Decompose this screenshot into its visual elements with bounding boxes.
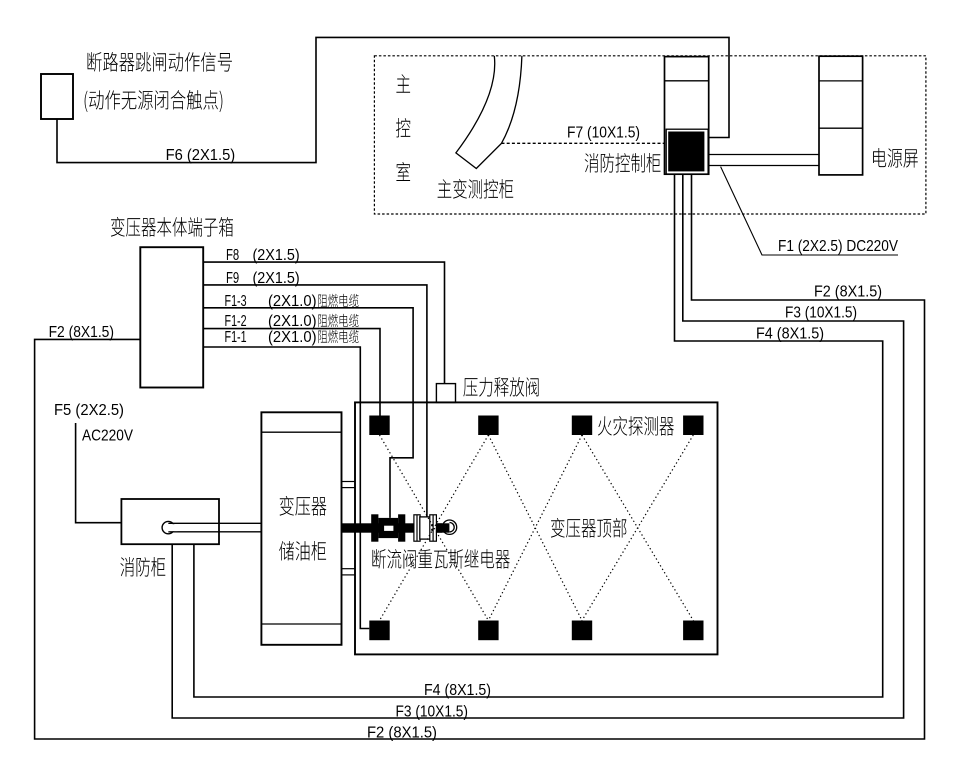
wire F1-2 to detector T1 xyxy=(203,329,380,416)
signal source box (breaker trip contact) xyxy=(41,74,73,119)
svg-text:AC220V: AC220V xyxy=(82,428,133,445)
svg-text:F4 (8X1.5): F4 (8X1.5) xyxy=(424,682,491,699)
fire control cabinet xyxy=(665,57,709,175)
svg-text:F8: F8 xyxy=(226,247,239,264)
label: breaker trip signal text xyxy=(88,52,232,72)
wire F9 to gas relay xyxy=(203,285,427,517)
label: main transformer control panel xyxy=(438,179,514,199)
label: transformer top xyxy=(551,518,627,538)
conservator side tab lower xyxy=(342,568,356,570)
svg-text:(2X1.0): (2X1.0) xyxy=(268,293,317,310)
label: main control room (vertical) xyxy=(396,74,410,93)
svg-text:F1-1: F1-1 xyxy=(225,329,247,346)
label: fire detector xyxy=(598,416,674,436)
svg-text:F2 (8X1.5): F2 (8X1.5) xyxy=(814,284,882,301)
wire F3 (cabinet to fire cabinet) xyxy=(172,174,903,718)
wire F8 to pressure relief valve xyxy=(203,262,444,384)
wire F4 (cabinet to fire cabinet) xyxy=(194,174,883,697)
label: transformer terminal box xyxy=(111,217,233,237)
fire detectors top row xyxy=(369,416,389,436)
pressure relief valve box xyxy=(436,384,455,403)
flow cutoff valve xyxy=(371,514,378,541)
transformer oil conservator xyxy=(261,412,341,645)
wire F1-3 to flow valve xyxy=(203,308,413,518)
svg-text:F1-2: F1-2 xyxy=(225,313,247,330)
svg-text:F9: F9 xyxy=(226,270,239,287)
svg-text:(2X1.0): (2X1.0) xyxy=(268,329,317,346)
svg-text:F2 (8X1.5): F2 (8X1.5) xyxy=(49,324,114,341)
nozzle end circle xyxy=(442,520,456,534)
wire F1-1 to detector B1 xyxy=(203,347,369,629)
svg-text:F2 (8X1.5): F2 (8X1.5) xyxy=(367,725,437,742)
label: fire control cabinet xyxy=(585,153,661,173)
label: transformer oil conservator xyxy=(280,496,327,516)
svg-text:F6 (2X1.5): F6 (2X1.5) xyxy=(166,147,236,164)
fire control cabinet black panel xyxy=(666,129,708,174)
main control room dashed box xyxy=(374,56,926,214)
svg-text:F3 (10X1.5): F3 (10X1.5) xyxy=(396,704,469,721)
transformer top box xyxy=(355,402,718,654)
main transformer control panel arc symbol xyxy=(456,56,522,169)
svg-text:F1 (2X2.5) DC220V: F1 (2X2.5) DC220V xyxy=(778,238,898,255)
svg-text:F7 (10X1.5): F7 (10X1.5) xyxy=(567,125,640,142)
label: flow valve and gas relay xyxy=(372,549,509,569)
power supply panel xyxy=(819,56,863,175)
svg-text:F4 (8X1.5): F4 (8X1.5) xyxy=(756,326,824,343)
label: fire cabinet xyxy=(120,557,165,577)
wire F2 (cabinet to terminal box, long loop) xyxy=(35,174,925,739)
wire F7 dashed xyxy=(502,142,665,144)
fire cabinet xyxy=(121,499,219,544)
svg-text:(2X1.5): (2X1.5) xyxy=(253,247,300,264)
pipe fire cabinet to conservator xyxy=(168,522,261,524)
thick oil pipe xyxy=(342,523,443,532)
fire detectors bottom row xyxy=(369,621,389,641)
svg-text:(2X1.5): (2X1.5) xyxy=(253,270,300,287)
pipe nozzle circle xyxy=(162,521,174,533)
conservator side tab upper xyxy=(342,481,356,483)
gas relay xyxy=(414,515,420,541)
wire F5 with AC220V xyxy=(76,423,122,523)
svg-text:F3 (10X1.5): F3 (10X1.5) xyxy=(785,305,857,322)
pipe to nozzle circle xyxy=(436,523,449,532)
label: power supply panel xyxy=(873,148,918,168)
leader line F1 xyxy=(721,167,898,255)
svg-text:F1-3: F1-3 xyxy=(225,293,247,310)
wire F1 bus to power panel xyxy=(709,154,819,156)
detection dashed lines xyxy=(380,435,489,621)
wire F6 xyxy=(57,37,729,162)
label: pressure relief valve xyxy=(463,377,538,397)
svg-text:F5 (2X2.5): F5 (2X2.5) xyxy=(54,402,124,419)
svg-text:(2X1.0): (2X1.0) xyxy=(268,313,317,330)
transformer terminal box xyxy=(140,247,203,387)
